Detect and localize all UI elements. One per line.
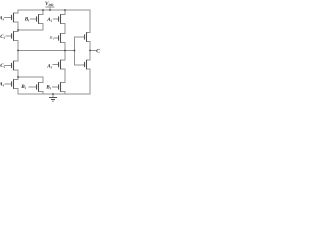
svg-text:i: i <box>28 19 29 23</box>
svg-text:i: i <box>3 84 4 88</box>
svg-text:i: i <box>4 65 5 69</box>
svg-text:i: i <box>51 66 52 70</box>
svg-text:i: i <box>51 19 52 23</box>
svg-text:i: i <box>3 18 4 22</box>
svg-text:DD: DD <box>47 3 54 7</box>
svg-text:i: i <box>25 86 26 90</box>
svg-text:B: B <box>49 35 53 40</box>
svg-text:i: i <box>4 36 5 40</box>
svg-text:i: i <box>50 87 51 91</box>
